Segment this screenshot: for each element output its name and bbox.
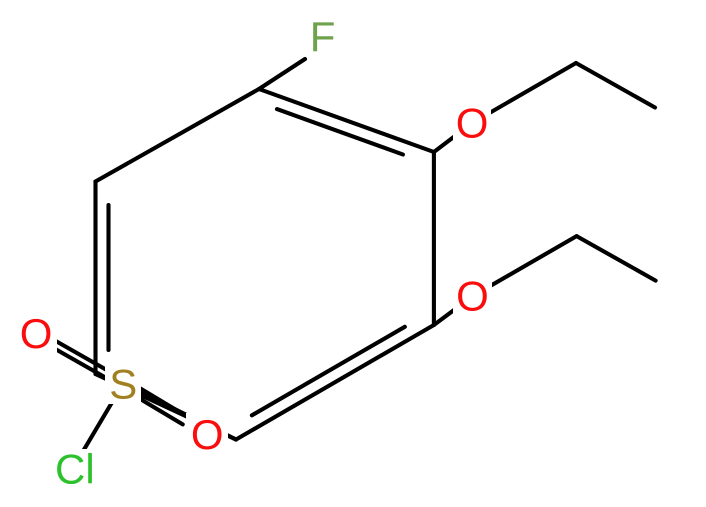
bond CH2-CH3 (upper ethyl) — [576, 63, 655, 108]
double bond S=O upper-left, line 1 — [38, 331, 125, 381]
bond C2-F — [259, 59, 305, 89]
bond S-Cl — [73, 384, 124, 469]
benzene edge C5-C6 aromatic inner line — [252, 327, 405, 416]
svg-text:S: S — [109, 360, 137, 407]
benzene edge C6-C1 (right vertical) — [432, 152, 436, 325]
double bond S=O upper-left, line 2 — [34, 337, 121, 387]
bond O upper - CH2 (upper ethyl) — [472, 63, 576, 123]
white halo under bottom O label — [186, 413, 228, 455]
bond O lower - CH2 (lower ethyl) — [473, 236, 577, 296]
white halo under lower O label — [453, 276, 492, 316]
benzene edge C5-C6 (bottom-right, outer) — [236, 325, 434, 440]
benzene edge C1-C2 aromatic inner line — [277, 109, 403, 154]
double bond S=O lower-right, line 2 — [138, 387, 188, 417]
white halo under Cl label — [50, 449, 95, 489]
benzene edge C3-C4 aromatic inner line — [106, 205, 110, 350]
bond CH2-CH3 (lower ethyl) — [577, 236, 656, 281]
white halo under upper O label — [453, 103, 491, 143]
svg-text:O: O — [20, 310, 53, 357]
svg-text:Cl: Cl — [55, 446, 95, 493]
white halo under F label — [307, 17, 338, 56]
white halo under left O label — [15, 314, 57, 354]
white halo under S label — [105, 363, 141, 404]
svg-text:O: O — [191, 411, 224, 458]
svg-text:F: F — [310, 13, 336, 60]
double bond S=O lower-right, line 1 — [133, 395, 183, 425]
bond C5-S — [123, 384, 236, 440]
svg-text:O: O — [456, 99, 489, 146]
svg-text:O: O — [456, 273, 489, 320]
benzene edge C1-C2 (top-right, outer) — [259, 89, 434, 152]
benzene edge C3-C4 (left vertical, outer) — [93, 182, 97, 375]
bond C6-O lower (aryl ether) — [434, 296, 473, 325]
benzene edge C4-C5 (bottom-left) — [96, 374, 237, 440]
bond C1-O upper (aryl ether) — [434, 123, 472, 152]
benzene edge C2-C3 (top-left) — [96, 89, 260, 182]
